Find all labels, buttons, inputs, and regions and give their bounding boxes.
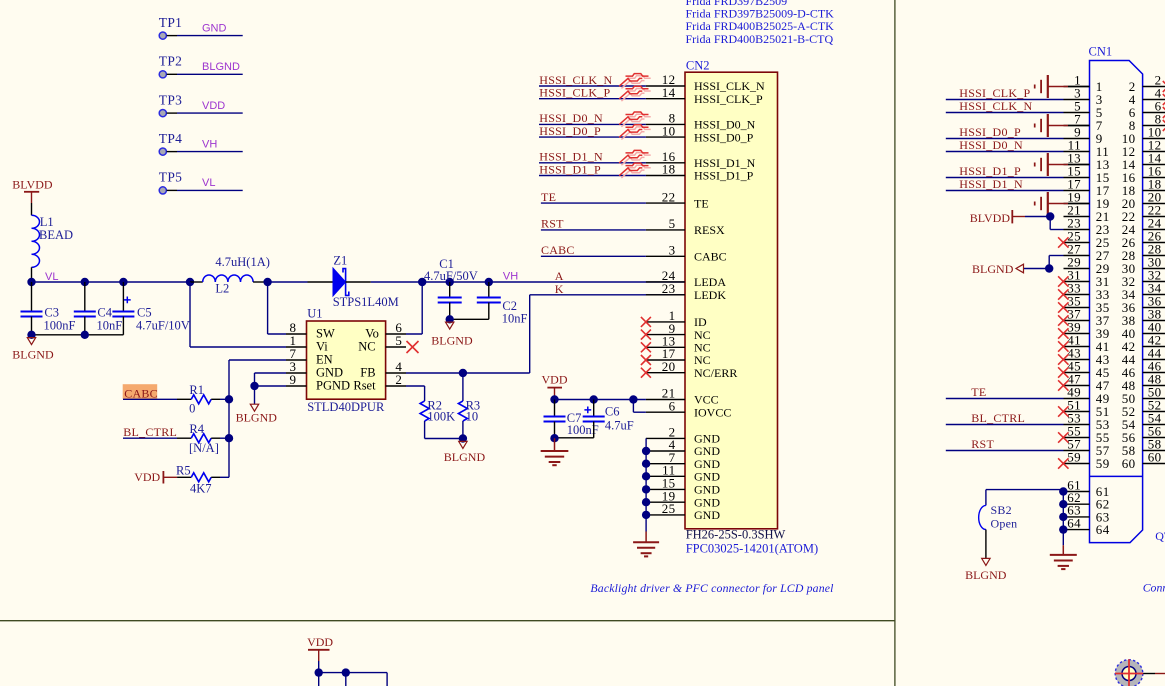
pin 18 CN1 <box>1143 190 1165 192</box>
pin 20 NC/ERR CN2 <box>646 372 685 374</box>
ground BLGND at R2 R3 <box>459 441 467 448</box>
wire PGND pin9 <box>286 385 307 387</box>
resistor R5 4K7 <box>177 476 191 478</box>
wire bottom branches <box>318 673 320 686</box>
wire net RST <box>541 229 646 231</box>
svg-text:20: 20 <box>662 359 676 374</box>
svg-text:VH: VH <box>503 271 518 283</box>
svg-text:R5: R5 <box>176 464 191 478</box>
svg-text:C5: C5 <box>137 306 152 320</box>
solder bridge SB2 <box>986 489 1063 491</box>
svg-text:Connec: Connec <box>1143 580 1165 594</box>
svg-text:64: 64 <box>1096 522 1110 537</box>
svg-text:TP1: TP1 <box>159 15 182 30</box>
svg-text:9: 9 <box>290 372 297 387</box>
wire net HSSI_CLK_N <box>946 112 1064 114</box>
pin 54 CN1 <box>1143 424 1165 426</box>
wire net HSSI_D0_P <box>946 138 1064 140</box>
svg-text:4.7uF: 4.7uF <box>605 419 634 433</box>
svg-text:10: 10 <box>466 410 479 424</box>
wire TP2 <box>167 73 177 75</box>
pin 43 CN1 <box>1064 359 1090 361</box>
wire VL rail <box>32 281 191 283</box>
wire CN1 ground column <box>1062 490 1064 546</box>
svg-text:VDD: VDD <box>202 100 225 112</box>
no-connect X marks CN2 <box>641 317 651 327</box>
svg-text:4K7: 4K7 <box>190 482 212 496</box>
svg-text:TP3: TP3 <box>159 92 182 107</box>
svg-text:18: 18 <box>662 162 676 177</box>
wire BL_CTRL to R4 <box>123 437 177 439</box>
svg-text:BLVDD: BLVDD <box>970 211 1011 225</box>
svg-text:TE: TE <box>971 385 986 399</box>
pin 1 CN1 <box>1064 86 1090 88</box>
pin 3 CABC CN2 <box>646 255 685 257</box>
svg-text:C4: C4 <box>97 306 112 320</box>
svg-text:HSSI_D1_P: HSSI_D1_P <box>959 164 1021 178</box>
wire SB2 to BLGND <box>985 530 987 559</box>
svg-text:CABC: CABC <box>124 386 158 400</box>
pin 2 GND CN2 <box>646 437 685 439</box>
svg-text:FPC03025-14201(ATOM): FPC03025-14201(ATOM) <box>686 541 818 555</box>
svg-text:100K: 100K <box>427 410 455 424</box>
svg-text:BLGND: BLGND <box>236 411 278 425</box>
pin 53 CN1 <box>1064 424 1090 426</box>
wire IOVCC branch <box>632 400 634 413</box>
svg-text:HSSI_CLK_P: HSSI_CLK_P <box>959 86 1030 100</box>
wire TP1 <box>167 35 177 37</box>
pin 58 CN1 <box>1143 450 1165 452</box>
svg-text:60: 60 <box>1148 449 1162 464</box>
wire net HSSI_CLK_P <box>946 99 1064 101</box>
pin 47 CN1 <box>1064 385 1090 387</box>
svg-text:U1: U1 <box>307 306 322 320</box>
wire cap bottoms <box>32 334 124 336</box>
svg-text:BLGND: BLGND <box>12 347 54 361</box>
pin 36 CN1 <box>1143 307 1165 309</box>
svg-text:BEAD: BEAD <box>39 228 73 242</box>
pin 13 NC CN2 <box>646 346 685 348</box>
pin 39 CN1 <box>1064 333 1090 335</box>
svg-text:Open: Open <box>991 517 1018 531</box>
wire net HSSI_D0_P <box>539 136 646 138</box>
pin 7 GND CN2 <box>646 463 685 465</box>
wire Rset pin2 to R2 <box>386 385 406 387</box>
wire net HSSI_CLK_N <box>539 85 646 87</box>
svg-text:BLGND: BLGND <box>972 262 1014 276</box>
svg-text:STLD40DPUR: STLD40DPUR <box>307 400 385 414</box>
pin 10 CN1 <box>1143 138 1165 140</box>
op-amp U1 STLD40DPUR body <box>307 321 386 399</box>
svg-text:STPS1L40M: STPS1L40M <box>333 295 399 309</box>
ground at CN2 GND pins <box>645 532 647 542</box>
pin 51 CN1 <box>1064 411 1090 413</box>
pin 37 CN1 <box>1064 320 1090 322</box>
svg-text:64: 64 <box>1067 515 1081 530</box>
wire net HSSI_D1_N <box>539 162 646 164</box>
svg-text:LEDK: LEDK <box>694 288 726 302</box>
capacitor C4 10nF <box>84 282 86 312</box>
resistor R1 0 <box>191 395 211 404</box>
svg-text:22: 22 <box>662 189 676 204</box>
svg-text:HSSI_D1_P: HSSI_D1_P <box>694 169 754 183</box>
no-connect X marks CN1 right edge <box>1163 81 1165 92</box>
svg-text:TP5: TP5 <box>159 170 182 185</box>
wire Vo pin6 to VH rail <box>386 333 406 335</box>
pin 17 CN1 <box>1064 190 1090 192</box>
svg-text:HSSI_D0_P: HSSI_D0_P <box>539 124 601 138</box>
svg-text:59: 59 <box>1096 456 1110 471</box>
pin 44 CN1 <box>1143 359 1165 361</box>
svg-text:HSSI_CLK_N: HSSI_CLK_N <box>959 99 1032 113</box>
svg-text:10: 10 <box>662 123 676 138</box>
wire resistor column <box>228 399 230 438</box>
svg-text:VDD: VDD <box>542 373 568 387</box>
pin 11 GND CN2 <box>646 475 685 477</box>
wire net HSSI_D0_N <box>539 123 646 125</box>
resistor R2 100K <box>420 401 429 421</box>
pin 5 NC no-connect <box>386 346 406 348</box>
wire SW pin8 to L2 out <box>286 333 307 335</box>
svg-text:RESX: RESX <box>694 223 725 237</box>
pin 8 CN1 <box>1143 125 1165 127</box>
wire net RST <box>946 450 1064 452</box>
svg-text:5: 5 <box>395 333 402 348</box>
node VL junctions <box>27 278 35 286</box>
svg-text:BLVDD: BLVDD <box>12 177 53 191</box>
svg-text:C3: C3 <box>44 306 59 320</box>
capacitor C5 4.7uF/10V <box>122 282 124 312</box>
resistor R3 10 <box>462 373 464 401</box>
svg-text:C6: C6 <box>605 405 620 419</box>
svg-text:CN1: CN1 <box>1089 45 1113 59</box>
wire TP3 <box>167 112 177 114</box>
svg-text:HSSI_D0_P: HSSI_D0_P <box>694 130 754 144</box>
shield/chassis symbol <box>1049 203 1069 205</box>
pin 17 NC CN2 <box>646 359 685 361</box>
pin 21 VCC CN2 <box>646 399 685 401</box>
pin 19 CN1 <box>1064 203 1090 205</box>
inductor L2 4.7uH(1A) <box>190 281 203 283</box>
pin 42 CN1 <box>1143 346 1165 348</box>
differential pair directive <box>621 165 650 178</box>
svg-text:VH: VH <box>202 138 217 150</box>
pin 25 GND CN2 <box>646 514 685 516</box>
pin 33 CN1 <box>1064 294 1090 296</box>
pin 4 GND CN2 <box>646 450 685 452</box>
wire L1 to VL rail <box>31 267 33 282</box>
svg-text:4.7uH(1A): 4.7uH(1A) <box>215 255 270 269</box>
pin 59 CN1 <box>1064 463 1090 465</box>
wire TP4 <box>167 151 177 153</box>
pin 5 RESX CN2 <box>646 229 685 231</box>
svg-text:GND: GND <box>316 366 343 380</box>
svg-text:SW: SW <box>316 327 335 341</box>
svg-text:Vo: Vo <box>365 327 379 341</box>
svg-text:GND: GND <box>694 508 720 522</box>
ground at CN1 pins 61-64 <box>1062 545 1064 554</box>
wire from mounting hole <box>1143 673 1155 675</box>
wire net HSSI_CLK_P <box>539 98 646 100</box>
pin 31 CN1 <box>1064 281 1090 283</box>
wire GND pin3 to PGND <box>286 372 307 374</box>
pin 7 CN1 <box>1064 125 1090 127</box>
pin 60 CN1 <box>1143 463 1165 465</box>
ground BLGND under SB2 <box>982 558 990 565</box>
wire net HSSI_D1_P <box>539 175 646 177</box>
svg-text:CABC: CABC <box>541 243 575 257</box>
diode Z1 STPS1L40M <box>333 268 346 296</box>
svg-text:CN2: CN2 <box>686 59 710 73</box>
pin 18 HSSI_D1_P CN2 <box>646 175 685 177</box>
ground BLGND at U1 <box>254 386 256 404</box>
svg-text:6: 6 <box>669 398 676 413</box>
pin 21 CN1 <box>1064 216 1090 218</box>
svg-text:GND: GND <box>694 470 720 484</box>
shield/chassis symbol <box>1049 86 1069 88</box>
pin 20 CN1 <box>1143 203 1165 205</box>
pin 23 CN1 <box>1064 229 1090 231</box>
svg-text:R1: R1 <box>189 383 204 397</box>
capacitor C2 10nF <box>488 282 490 297</box>
pin 9 CN1 <box>1064 138 1090 140</box>
svg-text:TE: TE <box>694 196 709 210</box>
svg-text:5: 5 <box>669 216 676 231</box>
pin 29 CN1 <box>1064 268 1090 270</box>
pin 35 CN1 <box>1064 307 1090 309</box>
pin 14 HSSI_CLK_P CN2 <box>646 98 685 100</box>
svg-text:4.7uF/10V: 4.7uF/10V <box>136 319 190 333</box>
pin 12 HSSI_CLK_N CN2 <box>646 85 685 87</box>
svg-text:10nF: 10nF <box>502 312 528 326</box>
svg-text:QT: QT <box>1155 529 1165 543</box>
pin 27 CN1 <box>1064 255 1090 257</box>
svg-text:100nF: 100nF <box>44 319 76 333</box>
svg-text:BLGND: BLGND <box>965 568 1007 582</box>
pin 45 CN1 <box>1064 372 1090 374</box>
no-connect X marks CN1 left <box>1058 237 1068 247</box>
wire net BL_CTRL <box>946 424 1064 426</box>
pin 2 CN1 <box>1143 86 1165 88</box>
pin 22 TE CN2 <box>646 202 685 204</box>
differential pair directive <box>621 76 650 89</box>
svg-text:VL: VL <box>202 177 215 189</box>
pin 38 CN1 <box>1143 320 1165 322</box>
shield/chassis symbol <box>1049 164 1069 166</box>
pin 56 CN1 <box>1143 437 1165 439</box>
pin 40 CN1 <box>1143 333 1165 335</box>
wire EN pin7 down to resistor column <box>286 359 307 361</box>
svg-text:Rset: Rset <box>353 379 376 393</box>
wire net CABC <box>541 255 646 257</box>
wire BLVDD to pin23 <box>1049 217 1051 230</box>
svg-text:LEDA: LEDA <box>694 275 726 289</box>
svg-text:HSSI_CLK_P: HSSI_CLK_P <box>694 92 763 106</box>
pin 6 IOVCC CN2 <box>646 411 685 413</box>
svg-text:EN: EN <box>316 353 333 367</box>
svg-text:SB2: SB2 <box>991 503 1012 517</box>
svg-text:BL_CTRL: BL_CTRL <box>971 411 1025 425</box>
svg-text:A: A <box>555 269 564 283</box>
pin 14 CN1 <box>1143 164 1165 166</box>
capacitor C6 4.7uF <box>593 400 595 417</box>
pin 55 CN1 <box>1064 437 1090 439</box>
svg-text:Backlight driver & PFC connect: Backlight driver & PFC connector for LCD… <box>590 581 834 595</box>
pin 15 CN1 <box>1064 177 1090 179</box>
pin 61 CN1 <box>1063 491 1089 493</box>
pin 4 CN1 <box>1143 99 1165 101</box>
pin 22 CN1 <box>1143 216 1165 218</box>
svg-text:BL_CTRL: BL_CTRL <box>123 425 177 439</box>
svg-text:PGND: PGND <box>316 379 350 393</box>
ground BLGND left <box>27 338 35 345</box>
pin 41 CN1 <box>1064 346 1090 348</box>
svg-text:VL: VL <box>45 271 58 283</box>
ground at C7 <box>554 438 556 450</box>
svg-text:VDD: VDD <box>307 635 333 649</box>
pin 24 CN1 <box>1143 229 1165 231</box>
pin 10 HSSI_D0_P CN2 <box>646 136 685 138</box>
pin 9 NC CN2 <box>646 334 685 336</box>
pin 16 HSSI_D1_N CN2 <box>646 162 685 164</box>
inductor L1 BEAD <box>32 215 40 267</box>
pin 50 CN1 <box>1143 398 1165 400</box>
pin 34 CN1 <box>1143 294 1165 296</box>
svg-text:2: 2 <box>395 372 402 387</box>
svg-text:TE: TE <box>541 190 556 204</box>
pin 8 HSSI_D0_N CN2 <box>646 123 685 125</box>
pin 26 CN1 <box>1143 242 1165 244</box>
svg-text:TP2: TP2 <box>159 54 182 69</box>
capacitor C3 100nF <box>31 282 33 312</box>
svg-text:NC/ERR: NC/ERR <box>694 366 737 380</box>
wire R5 to column <box>220 476 229 478</box>
svg-text:VDD: VDD <box>134 470 160 484</box>
svg-text:59: 59 <box>1067 449 1081 464</box>
wire net HSSI_D0_N <box>946 151 1064 153</box>
svg-text:TP4: TP4 <box>159 131 182 146</box>
svg-text:[N/A]: [N/A] <box>189 441 219 455</box>
svg-text:FH26-25S-0.3SHW: FH26-25S-0.3SHW <box>686 528 786 542</box>
capacitor C7 100nF <box>554 400 556 417</box>
resistor R4 [N/A] <box>191 434 211 443</box>
svg-text:IOVCC: IOVCC <box>694 405 731 419</box>
pin 49 CN1 <box>1064 398 1090 400</box>
svg-text:4.7uF/50V: 4.7uF/50V <box>424 269 478 283</box>
wire net HSSI_D1_P <box>946 177 1064 179</box>
shield/chassis symbol <box>1049 125 1069 127</box>
svg-text:RST: RST <box>541 217 564 231</box>
mounting hole fiducial <box>1115 660 1143 686</box>
svg-text:3: 3 <box>669 243 676 258</box>
svg-text:CABC: CABC <box>694 250 727 264</box>
pin 48 CN1 <box>1143 385 1165 387</box>
svg-text:HSSI_D0_P: HSSI_D0_P <box>959 125 1021 139</box>
wire LEDK net <box>529 295 531 373</box>
wire VDD bottom rail <box>318 661 320 673</box>
svg-text:23: 23 <box>662 281 676 296</box>
node VH junctions <box>418 278 426 286</box>
pin 28 CN1 <box>1143 255 1165 257</box>
pin 3 CN1 <box>1064 99 1090 101</box>
pin 46 CN1 <box>1143 372 1165 374</box>
svg-text:60: 60 <box>1122 456 1136 471</box>
svg-text:RST: RST <box>971 437 994 451</box>
svg-text:BLGND: BLGND <box>444 450 486 464</box>
differential pair directive <box>621 89 650 102</box>
wire Z1 to VH rail <box>346 281 371 283</box>
pin 30 CN1 <box>1143 268 1165 270</box>
pin 32 CN1 <box>1143 281 1165 283</box>
pin 52 CN1 <box>1143 411 1165 413</box>
wire TP5 <box>167 189 177 191</box>
pin 57 CN1 <box>1064 450 1090 452</box>
pin 16 CN1 <box>1143 177 1165 179</box>
wire net HSSI_D1_N <box>946 190 1064 192</box>
wire Vi pin1 to VL rail <box>286 346 307 348</box>
svg-text:25: 25 <box>662 501 676 516</box>
pin 13 CN1 <box>1064 164 1090 166</box>
wire BLGND to pin27 <box>1048 256 1050 269</box>
wire FB pin4 <box>386 372 406 374</box>
svg-text:FB: FB <box>360 366 375 380</box>
svg-text:HSSI_D1_N: HSSI_D1_N <box>959 177 1023 191</box>
svg-text:R4: R4 <box>189 422 204 436</box>
differential pair directive <box>621 114 650 127</box>
svg-text:NC: NC <box>358 340 375 354</box>
wire L2 to Z1 <box>253 281 268 283</box>
pin 25 CN1 <box>1064 242 1090 244</box>
svg-text:Vi: Vi <box>316 340 328 354</box>
pin 1 ID CN2 <box>646 321 685 323</box>
wire BLVDD to L1 <box>31 203 33 215</box>
svg-text:BLGND: BLGND <box>202 61 240 73</box>
differential pair directive <box>621 153 650 166</box>
wire net TE <box>946 398 1064 400</box>
pin 12 CN1 <box>1143 151 1165 153</box>
net label CABC highlighted <box>123 384 158 399</box>
pin 64 CN1 <box>1063 529 1089 531</box>
svg-text:HSSI_D1_P: HSSI_D1_P <box>539 162 601 176</box>
wire VCC rail <box>555 399 646 401</box>
wire GND cluster <box>645 438 647 515</box>
svg-text:Z1: Z1 <box>333 253 347 267</box>
svg-text:HSSI_D0_N: HSSI_D0_N <box>959 138 1023 152</box>
pin 19 GND CN2 <box>646 501 685 503</box>
svg-text:GND: GND <box>202 22 227 34</box>
pin 63 CN1 <box>1063 516 1089 518</box>
wire CABC to R1 <box>123 398 177 400</box>
svg-text:HSSI_CLK_P: HSSI_CLK_P <box>539 86 610 100</box>
ground BLGND at C1 C2 <box>446 322 454 329</box>
svg-text:14: 14 <box>662 85 676 100</box>
pin 11 CN1 <box>1064 151 1090 153</box>
svg-text:K: K <box>555 282 564 296</box>
wire net TE <box>541 202 646 204</box>
pin 62 CN1 <box>1063 503 1089 505</box>
pin 15 GND CN2 <box>646 488 685 490</box>
differential pair directive <box>621 127 650 140</box>
svg-text:10nF: 10nF <box>97 319 123 333</box>
svg-text:Frida FRD400B25021-B-CTQ: Frida FRD400B25021-B-CTQ <box>686 32 834 46</box>
pin 6 CN1 <box>1143 112 1165 114</box>
svg-text:BLGND: BLGND <box>431 333 473 347</box>
svg-text:L2: L2 <box>215 281 229 295</box>
capacitor C1 4.7uF/50V <box>449 282 451 297</box>
svg-text:0: 0 <box>189 402 195 416</box>
pin 24 LEDA CN2 <box>646 281 685 283</box>
pin 5 CN1 <box>1064 112 1090 114</box>
